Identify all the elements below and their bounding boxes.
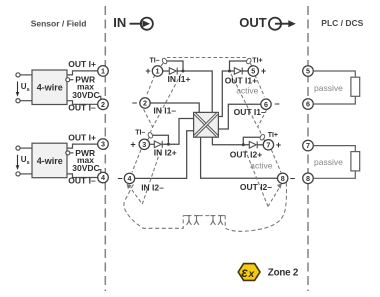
svg-text:5: 5 [306,67,310,76]
svg-text:7: 7 [266,140,270,149]
svg-text:6: 6 [306,100,310,109]
svg-text:OUT I–: OUT I– [68,102,96,112]
svg-text:Sensor / Field: Sensor / Field [31,19,87,29]
svg-text:−: − [274,99,279,109]
svg-text:OUT I+: OUT I+ [68,59,96,69]
svg-text:s: s [27,160,30,166]
svg-text:IN I1+: IN I1+ [168,74,191,84]
svg-text:Zone 2: Zone 2 [268,267,299,278]
svg-text:2: 2 [143,99,147,108]
svg-text:OUT: OUT [239,15,266,30]
svg-text:passive: passive [314,157,343,167]
svg-text:30VDC: 30VDC [72,163,99,173]
svg-text:IN I2+: IN I2+ [154,147,177,157]
svg-text:2: 2 [101,100,105,109]
svg-text:IN: IN [113,15,126,30]
svg-text:x: x [248,269,255,280]
svg-text:3: 3 [101,140,105,149]
svg-text:−: − [290,173,295,183]
svg-text:4: 4 [128,174,132,183]
svg-text:1: 1 [156,67,160,76]
svg-text:ε: ε [241,265,248,280]
svg-text:OUT I1+: OUT I1+ [225,75,257,85]
svg-text:OUT I+: OUT I+ [68,132,96,142]
svg-text:IN I1–: IN I1– [153,105,176,115]
svg-text:TI–: TI– [135,130,145,137]
svg-text:4: 4 [101,173,105,182]
svg-text:IN I2–: IN I2– [141,183,164,193]
svg-text:active: active [250,161,272,171]
svg-text:active: active [236,86,258,96]
svg-text:PLC / DCS: PLC / DCS [321,18,363,28]
svg-text:OUT I1–: OUT I1– [234,107,266,117]
svg-text:7: 7 [306,141,310,150]
svg-text:+: + [261,66,266,76]
svg-text:+: + [145,66,150,76]
svg-text:−: − [117,173,122,183]
svg-text:30VDC: 30VDC [72,90,99,100]
svg-text:TI–: TI– [150,57,160,64]
svg-text:3: 3 [142,140,146,149]
svg-text:+: + [130,139,135,149]
svg-text:8: 8 [281,174,285,183]
svg-text:OUT I2–: OUT I2– [240,182,272,192]
svg-text:s: s [27,87,30,93]
svg-text:−: − [132,98,137,108]
svg-text:TI+: TI+ [268,132,278,139]
svg-text:passive: passive [314,83,343,93]
svg-text:OUT I–: OUT I– [68,176,96,186]
svg-text:5: 5 [251,67,255,76]
svg-text:+: + [276,140,281,150]
svg-text:6: 6 [264,100,268,109]
svg-text:TI+: TI+ [252,57,262,64]
svg-text:OUT I2+: OUT I2+ [230,149,262,159]
svg-text:1: 1 [101,67,105,76]
svg-text:8: 8 [306,174,310,183]
svg-text:4-wire: 4-wire [37,83,63,93]
svg-text:4-wire: 4-wire [37,156,63,166]
